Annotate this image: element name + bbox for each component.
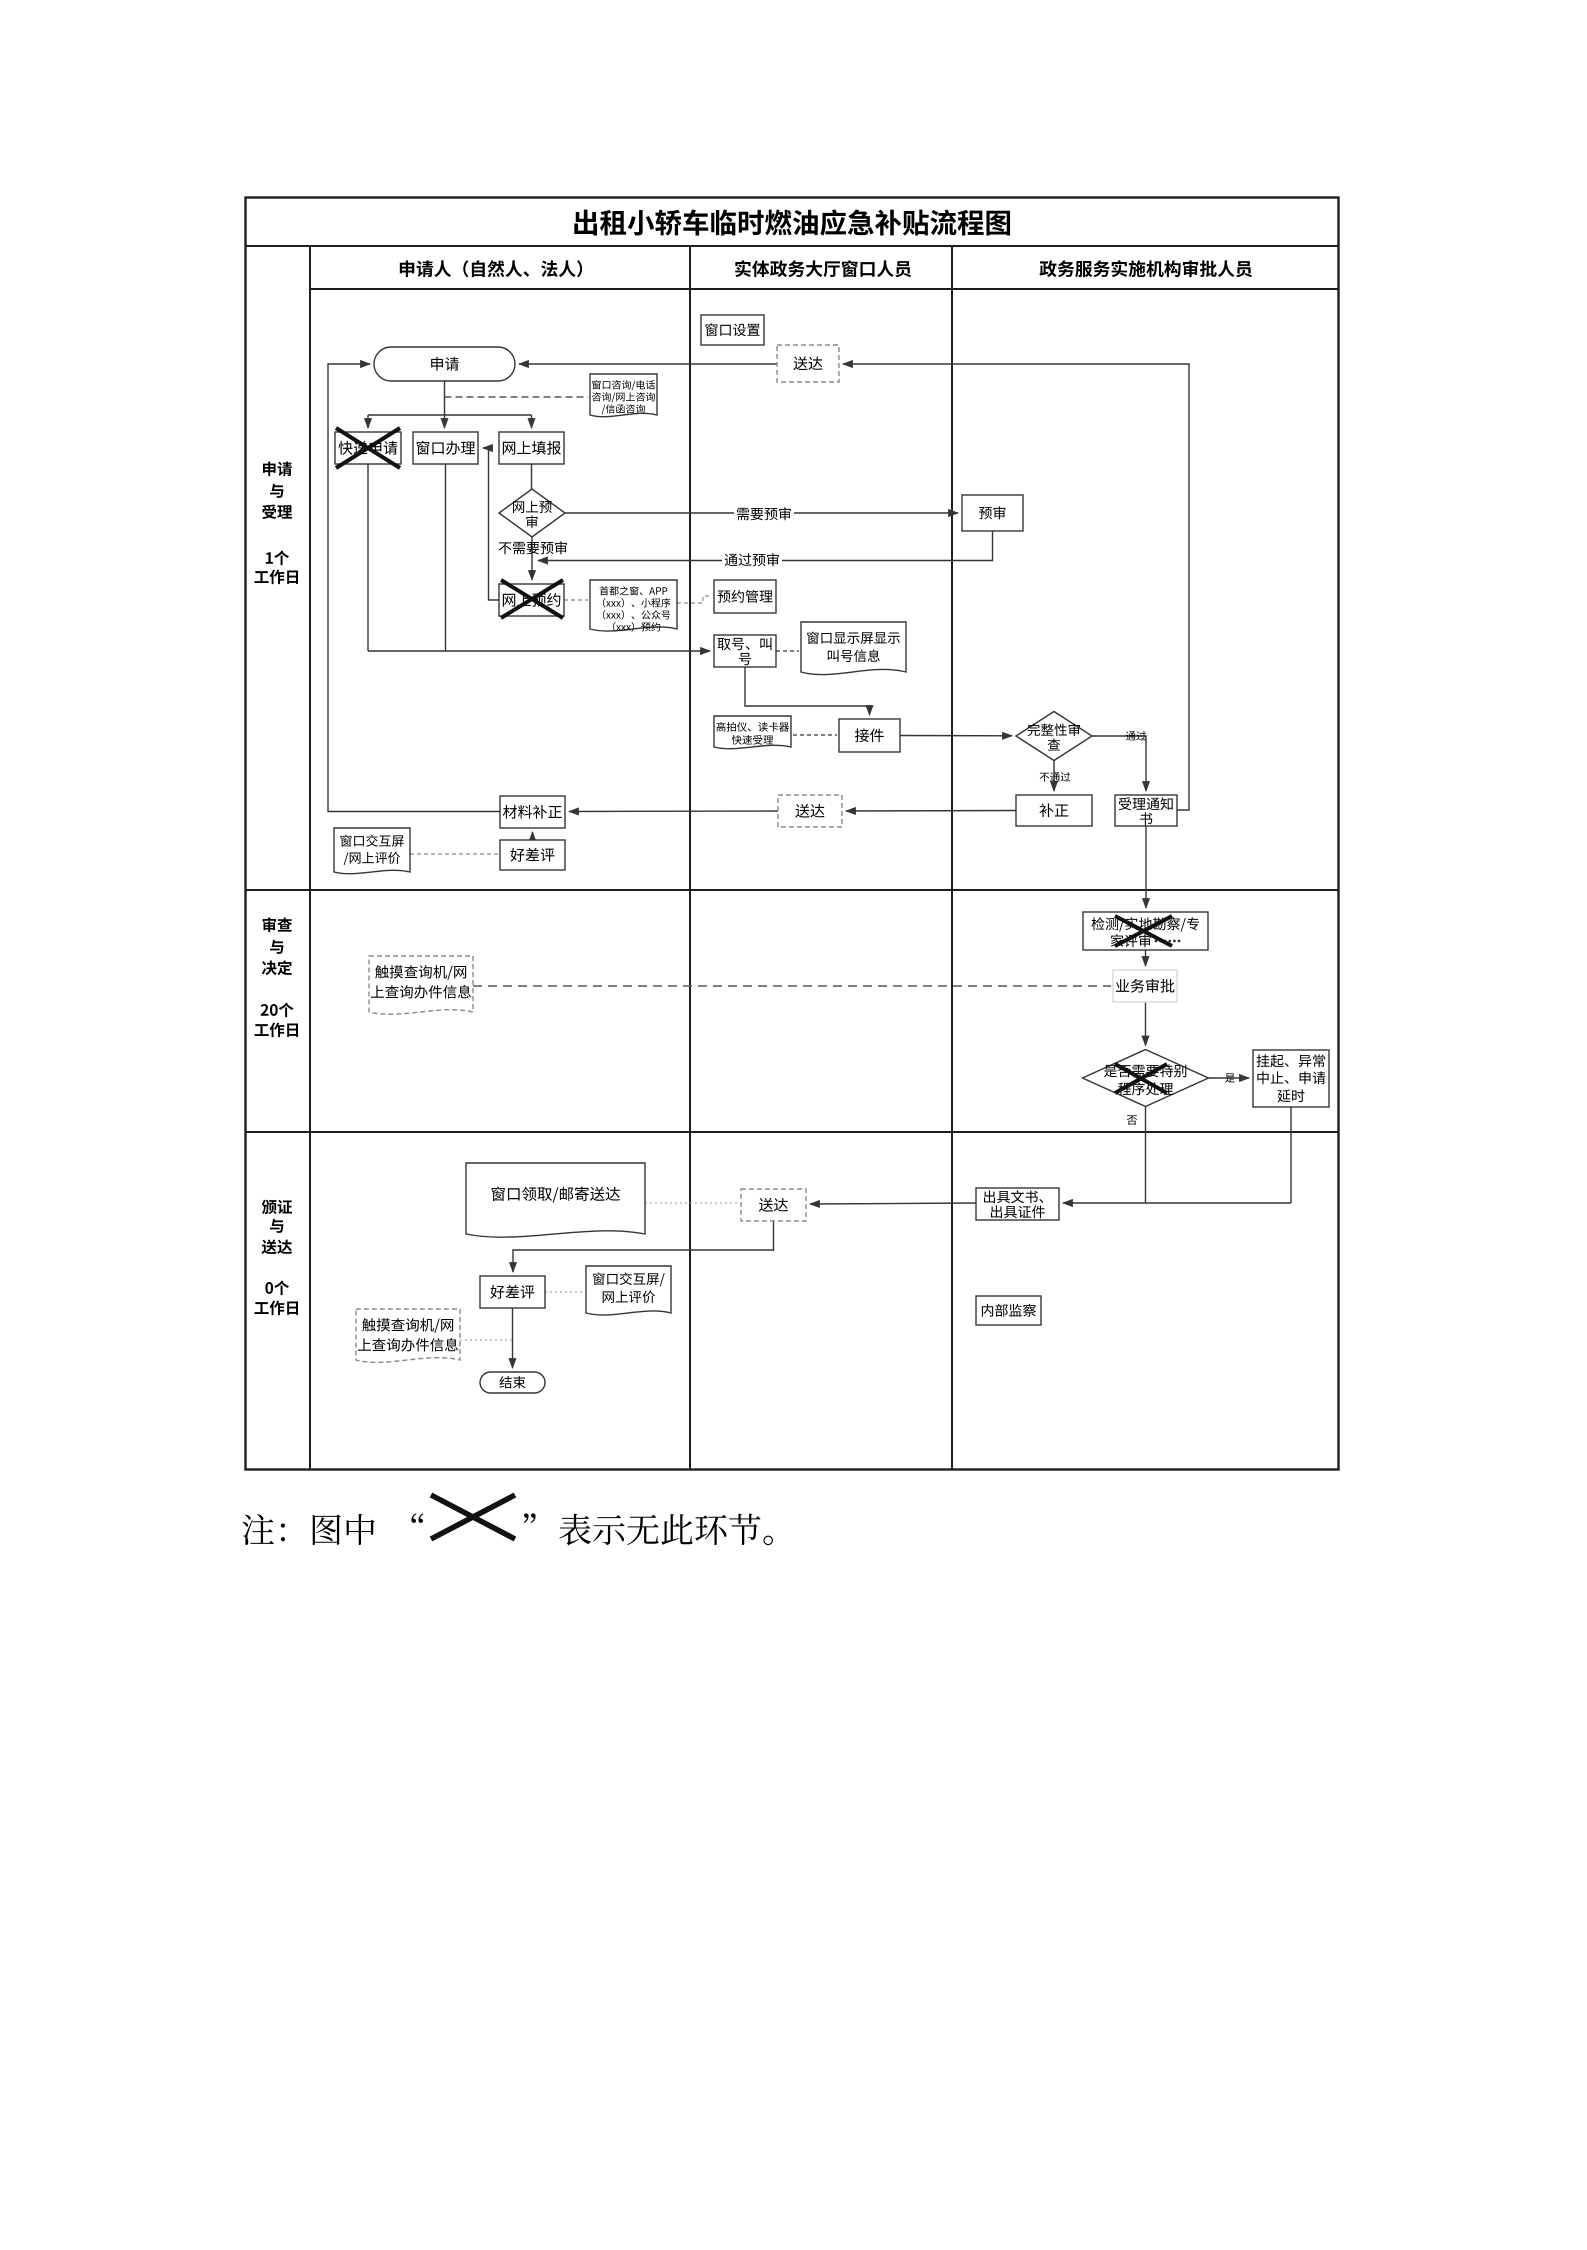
- dashed link 取号 to 显示屏 document: [776, 650, 799, 652]
- terminator 申请: [374, 347, 515, 381]
- dotted link 触摸查询机 document to wire: [460, 1339, 512, 1341]
- process 挂起、异常中止、申请延时: [1253, 1050, 1329, 1107]
- dashed node 送达 (bottom): [741, 1189, 806, 1221]
- dashed link 网上预约 to 首都之窗 document: [564, 599, 588, 601]
- dashed link 首都之窗 document to 预约管理: [677, 596, 710, 603]
- label 通过预审: [722, 552, 782, 568]
- document 高拍仪、读卡器快速受理: [714, 716, 791, 749]
- process 出具文书、出具证件: [976, 1188, 1059, 1220]
- cross-out over 是否需要特别程序处理: [1115, 1064, 1167, 1093]
- cross-out over 快递申请: [336, 428, 400, 468]
- wire 挂起 down: [1290, 1107, 1292, 1203]
- wire 接件 to 完整性审查: [900, 735, 1012, 737]
- process 检测/实地勘察/专家评审 (crossed out): [1083, 912, 1208, 950]
- label 不需要预审: [499, 541, 567, 554]
- wire 送达 to 申请: [519, 363, 777, 365]
- table outer frame: [246, 198, 1339, 1470]
- dashed document 触摸查询机 (bottom): [356, 1309, 460, 1362]
- wire 出具文书 to 送达: [810, 1203, 976, 1204]
- lane header 窗口人员: [735, 260, 911, 277]
- wire 好差评 to 材料补正: [532, 832, 534, 840]
- process 接件: [839, 719, 900, 752]
- wire 送达 to 好差评: [513, 1221, 774, 1272]
- wire 业务审批 to 是否需要特别程序处理: [1145, 1002, 1147, 1046]
- footnote left quote: [411, 1513, 423, 1523]
- dashed link 高拍仪 document to 接件: [793, 734, 837, 736]
- wire 材料补正 loop to 申请: [328, 364, 500, 812]
- wire 检测 to 业务审批: [1145, 950, 1147, 966]
- dashed document 触摸查询机/网上查询办件信息: [369, 956, 473, 1014]
- wire 完整性审查 通过 to 受理通知书: [1092, 736, 1146, 791]
- process 业务审批 (light): [1113, 970, 1177, 1002]
- section divider 2: [246, 1131, 1339, 1133]
- label 是: [1225, 1073, 1235, 1082]
- wire 受理通知书 up to 送达: [843, 364, 1189, 810]
- wire 窗口办理 down: [445, 464, 447, 651]
- process 材料补正: [500, 796, 565, 828]
- dashed node 送达 (middle): [778, 795, 842, 827]
- cross-out over 网上预约: [501, 580, 563, 618]
- dashed link 触摸查询机 to 业务审批: [473, 985, 1111, 987]
- process 好差评: [500, 840, 565, 870]
- process 预审: [962, 495, 1023, 531]
- wire 需要预审 to 预审: [565, 512, 958, 514]
- chart title: [574, 209, 1010, 235]
- label 通过: [1126, 731, 1146, 741]
- wire to 取号叫号: [368, 650, 710, 652]
- process 好差评 (bottom): [480, 1276, 545, 1308]
- wire 网上预审 to 网上预约: [531, 537, 533, 580]
- dashed link 交互屏 document to 好差评: [410, 853, 498, 855]
- title row divider: [246, 245, 1339, 247]
- wire 预审 to 通过预审 junction: [538, 531, 993, 561]
- process 内部监察: [976, 1296, 1041, 1325]
- dotted link 窗口领取 document to 送达: [645, 1202, 739, 1204]
- lane divider 2: [951, 246, 953, 1470]
- sidebar label 审查与决定 20个工作日: [263, 917, 292, 932]
- document 窗口交互屏/网上评价 (bottom): [586, 1266, 671, 1315]
- wire to 出具文书: [1063, 1202, 1291, 1204]
- process 网上填报: [499, 432, 564, 464]
- footnote 表示无此环节: [559, 1514, 773, 1546]
- process 补正: [1016, 795, 1092, 826]
- wire 快递申请 down: [367, 464, 369, 651]
- document 窗口显示屏显示叫号信息: [801, 622, 906, 675]
- lane divider 1: [689, 246, 691, 1470]
- wire 网上填报 to 网上预审: [531, 464, 533, 489]
- wire branch to 快递申请: [367, 415, 369, 428]
- wire branch to 窗口办理: [444, 415, 446, 428]
- terminator 结束: [480, 1372, 545, 1393]
- wire 补正 to 送达: [846, 810, 1016, 813]
- wire 申请 bottom stem: [444, 381, 446, 415]
- document 窗口交互屏/网上评价: [334, 828, 410, 874]
- wire 送达 to 材料补正: [569, 810, 778, 813]
- process 取号、叫号: [714, 635, 776, 667]
- process 网上预约 (crossed out): [499, 584, 564, 616]
- wire 取号 to 接件: [745, 667, 870, 715]
- footnote 注：图中: [242, 1514, 374, 1545]
- document 首都之窗 APP 预约: [590, 580, 677, 631]
- decision 是否需要特别程序处理 (crossed out): [1083, 1050, 1209, 1107]
- lane header 审批人员: [1040, 260, 1252, 277]
- dotted link 好差评 to 交互屏 document: [545, 1291, 584, 1293]
- sidebar label 申请与受理 1个工作日: [263, 462, 292, 477]
- footnote right quote: [524, 1513, 536, 1523]
- wire 好差评 to 结束: [512, 1308, 514, 1368]
- wire 完整性审查 不通过 to 补正: [1053, 761, 1055, 792]
- sidebar label 颁证与送达 0个工作日: [262, 1200, 292, 1215]
- process 快递申请 (crossed out): [335, 432, 401, 464]
- label 不通过: [1040, 772, 1071, 782]
- footnote cross symbol: [431, 1495, 515, 1539]
- process 窗口设置: [701, 315, 764, 345]
- wire 网上预约 loop to 窗口办理: [483, 448, 499, 600]
- decision 完整性审查: [1016, 712, 1092, 761]
- cross-out over 检测: [1115, 916, 1172, 946]
- decision 网上预审: [499, 489, 565, 537]
- label 需要预审: [734, 506, 794, 522]
- wire 受理通知书 down to 检测: [1145, 826, 1147, 908]
- dashed link 申请 to 咨询 document: [445, 396, 589, 398]
- dashed node 送达 (top): [777, 345, 839, 382]
- wire 是 to 挂起: [1209, 1077, 1250, 1079]
- label 否: [1127, 1115, 1137, 1124]
- wire 否 branch down: [1145, 1107, 1147, 1204]
- process 受理通知书: [1115, 795, 1177, 826]
- lane header bottom divider: [310, 288, 1339, 290]
- wire branch header: [368, 414, 532, 416]
- document 窗口领取/邮寄送达: [466, 1163, 645, 1237]
- process 窗口办理: [413, 432, 478, 464]
- lane header 申请人: [400, 260, 582, 277]
- document 窗口咨询/电话咨询/网上咨询/信函咨询: [590, 374, 657, 417]
- wire branch to 网上填报: [531, 415, 533, 428]
- sidebar column divider: [309, 246, 311, 1470]
- section divider 1: [246, 889, 1339, 891]
- process 预约管理: [714, 580, 776, 613]
